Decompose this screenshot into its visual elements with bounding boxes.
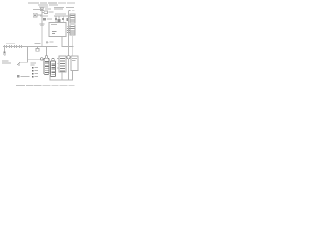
node marks pair — [40, 23, 45, 26]
terminal row 4 — [32, 76, 38, 78]
wire battery bottom down — [49, 75, 52, 81]
battery BT1 — [44, 56, 49, 75]
underline wire segment — [54, 7, 63, 10]
terminal list text — [31, 63, 36, 66]
wire bottom horizontal — [50, 79, 73, 82]
relay K1 — [57, 56, 66, 72]
capacitor C4 — [19, 45, 22, 48]
separator line — [16, 85, 25, 86]
label F1 — [45, 9, 51, 10]
connector J1 — [70, 14, 75, 23]
bus line top-right — [54, 15, 70, 18]
capacitor C5 polarized — [3, 48, 6, 56]
title text row — [28, 2, 75, 3]
thermistor TH1 — [67, 56, 70, 59]
label R1 — [48, 12, 53, 13]
marks inside enclosure — [52, 31, 56, 34]
terminal row 3 — [32, 73, 38, 75]
label R2 — [35, 42, 41, 45]
text inside enclosure — [51, 24, 57, 25]
pin label marks — [69, 10, 75, 11]
subtitle text row — [38, 5, 58, 6]
fuse F1 — [41, 8, 44, 11]
bottom-left note symbol — [17, 75, 19, 77]
capacitor C3 — [14, 45, 17, 48]
wire left branch down — [26, 47, 29, 63]
arrow pointer — [17, 62, 20, 66]
terminal row 2 — [32, 70, 38, 72]
IC U1 — [55, 16, 57, 22]
main rail — [3, 45, 58, 48]
wire box bottom down — [61, 37, 64, 47]
diode D1 — [43, 18, 46, 21]
capacitor C1 — [4, 45, 7, 48]
terminal row 1 — [32, 67, 38, 69]
pin stubs J2 — [67, 26, 70, 33]
wire across to right — [62, 45, 74, 48]
plus node marker — [46, 41, 49, 44]
IC U3 — [62, 16, 64, 22]
bus label text — [55, 13, 66, 14]
wire relay bottom down — [61, 72, 64, 81]
label near plus — [50, 41, 54, 42]
plug P1 — [33, 13, 37, 17]
label text P1 — [33, 9, 42, 10]
wire vertical main feed — [41, 11, 44, 26]
capacitor C2 — [9, 45, 12, 48]
component X1 — [66, 18, 68, 21]
note text row — [39, 7, 74, 8]
battery BT2 — [50, 58, 55, 76]
wire thermistor down — [67, 59, 70, 81]
module box — [71, 56, 78, 70]
IC U2 — [57, 16, 60, 22]
bottom-left note text — [21, 76, 30, 77]
resistor R1 — [44, 11, 47, 14]
wire down to module — [71, 36, 74, 56]
wire plug to bus — [37, 14, 41, 17]
wire connector to thermistor — [67, 11, 70, 56]
wire stub to R1 — [43, 11, 45, 14]
label caps — [6, 42, 15, 45]
label D1 — [47, 18, 52, 19]
junction bead — [40, 58, 43, 61]
connector J2 — [70, 25, 75, 35]
wire module bottom up — [71, 70, 74, 80]
wire horizontal to battery block — [28, 58, 44, 61]
label BAT text — [2, 61, 11, 64]
enclosure box — [49, 23, 66, 37]
label row mid — [40, 16, 48, 17]
resistor R2 — [36, 47, 39, 51]
wire stub rail to battery — [45, 47, 48, 56]
